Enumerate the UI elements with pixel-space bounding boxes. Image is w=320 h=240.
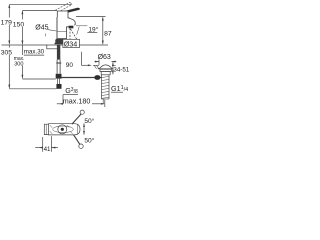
ext line top of raised lever (179) bbox=[9, 3, 71, 5]
dim line 179 bbox=[8, 5, 10, 18]
hose1 end ext bbox=[22, 78, 55, 80]
tube ext to dim bbox=[102, 99, 104, 104]
svg-text:150: 150 bbox=[13, 22, 25, 29]
ball center bbox=[61, 128, 64, 131]
arrow 150 top bbox=[21, 10, 23, 14]
90 leader vertical bbox=[80, 52, 82, 66]
svg-text:50°: 50° bbox=[84, 136, 94, 144]
shank dark below counter bbox=[57, 45, 60, 60]
G3/8 underline bbox=[63, 94, 78, 96]
max.180 dim bbox=[57, 103, 63, 105]
dim line 87 bbox=[102, 17, 104, 44]
svg-text:87: 87 bbox=[104, 31, 112, 38]
flange chord bbox=[98, 68, 114, 70]
svg-text:300: 300 bbox=[14, 61, 23, 67]
41 dim bbox=[42, 137, 44, 152]
arrow 179 bottom bbox=[8, 41, 10, 45]
double arrow bbox=[83, 123, 85, 134]
capsule inner right line bbox=[77, 124, 79, 134]
rod knob bbox=[94, 75, 100, 80]
small tick left of body bbox=[44, 34, 46, 37]
hose2 end ext bbox=[9, 88, 56, 90]
O63 ext left bbox=[98, 59, 100, 65]
arrow 150 bottom bbox=[21, 41, 23, 45]
flange dome bbox=[99, 65, 112, 69]
19deg spout leader bbox=[76, 25, 87, 27]
O63 dim+ext right bbox=[112, 62, 114, 74]
body joint line bbox=[57, 31, 67, 33]
svg-text:Ø63: Ø63 bbox=[98, 54, 111, 61]
svg-text:41: 41 bbox=[44, 146, 51, 153]
max180 left ext bbox=[62, 95, 64, 104]
hose fitting 1 bbox=[56, 74, 62, 79]
arrow 305 bottom bbox=[8, 85, 10, 89]
O63 arrow left bbox=[95, 61, 99, 63]
spout top bbox=[68, 18, 75, 26]
body left edge bbox=[56, 17, 58, 39]
capsule body bbox=[49, 124, 81, 135]
spout bottom / body right bbox=[67, 27, 69, 39]
counter top line bbox=[2, 44, 109, 46]
hose tail bbox=[57, 79, 59, 84]
shank tick bbox=[56, 62, 61, 64]
19deg underline bbox=[87, 32, 97, 34]
rod stub to tube bbox=[100, 77, 101, 79]
hose fitting 2 bbox=[56, 84, 61, 89]
svg-text:90: 90 bbox=[66, 62, 74, 69]
arrow 87 bottom bbox=[102, 41, 104, 45]
waste mechanism bbox=[44, 110, 84, 148]
90 leader horizontal bbox=[81, 64, 87, 66]
water stream vertical dashed bbox=[69, 28, 71, 40]
waste tube bbox=[101, 75, 103, 99]
hose lines bbox=[56, 60, 58, 74]
lever cap / cartridge neck bbox=[57, 11, 68, 17]
arrow 87 top bbox=[102, 17, 104, 21]
O34 box bbox=[63, 39, 80, 47]
svg-text:max.30: max.30 bbox=[24, 49, 45, 56]
max30 underline bbox=[24, 54, 44, 56]
basin hatch left bbox=[94, 66, 99, 69]
90 leader arrow bbox=[88, 64, 92, 66]
basin line left bbox=[93, 64, 99, 66]
svg-text:305: 305 bbox=[1, 49, 13, 56]
19deg leader diagonal bbox=[77, 27, 80, 35]
dim line 150 bbox=[21, 11, 23, 19]
dim line 305 segment bbox=[8, 45, 10, 48]
flange lip bbox=[100, 69, 111, 71]
34-51 arrows bbox=[112, 62, 114, 66]
svg-text:Ø45: Ø45 bbox=[35, 24, 48, 31]
arrow 179 top bbox=[8, 4, 10, 8]
svg-text:Ø34: Ø34 bbox=[64, 40, 78, 49]
under-flange body bbox=[101, 72, 110, 75]
capsule hatch bbox=[50, 125, 73, 134]
clevis bracket bbox=[44, 124, 48, 134]
tube threads bbox=[102, 77, 110, 99]
O63 arrow right bbox=[112, 61, 116, 63]
lower rod bbox=[74, 135, 80, 145]
svg-text:max.180: max.180 bbox=[63, 97, 91, 106]
aerator bbox=[69, 26, 74, 29]
O63 dim line outside left bbox=[94, 61, 99, 63]
inner ellipse bbox=[53, 126, 74, 133]
svg-text:179: 179 bbox=[1, 19, 13, 26]
max30 dim tick bbox=[46, 45, 48, 50]
body right edge upper bbox=[67, 17, 69, 18]
svg-text:34-51: 34-51 bbox=[113, 66, 129, 73]
arrow max300 bottom bbox=[21, 75, 23, 79]
counter bottom line bbox=[47, 48, 57, 50]
arrowheads dims bbox=[8, 4, 103, 89]
raised lever dashed bbox=[55, 2, 70, 10]
ball circle bbox=[58, 125, 67, 134]
lever solid bbox=[57, 8, 80, 16]
dim line max300 segment bbox=[21, 45, 23, 55]
O45 leader bbox=[48, 30, 57, 31]
angle arc bbox=[70, 39, 75, 42]
basin line right bbox=[112, 64, 115, 66]
base bbox=[55, 38, 68, 44]
water stream angled dashed bbox=[71, 29, 78, 41]
upper rod bbox=[72, 114, 82, 125]
spout/lever tip ext (87) bbox=[76, 16, 106, 18]
faucet bbox=[45, 2, 80, 44]
ext line top of lever (150) bbox=[22, 10, 57, 12]
G1 1/4 underline leader bbox=[111, 91, 123, 93]
svg-text:19°: 19° bbox=[88, 25, 98, 33]
svg-text:50°: 50° bbox=[84, 117, 94, 125]
horizontal rod bbox=[62, 77, 95, 79]
O63 dim line outside right bbox=[112, 61, 117, 63]
raised lever tip bbox=[70, 2, 72, 4]
